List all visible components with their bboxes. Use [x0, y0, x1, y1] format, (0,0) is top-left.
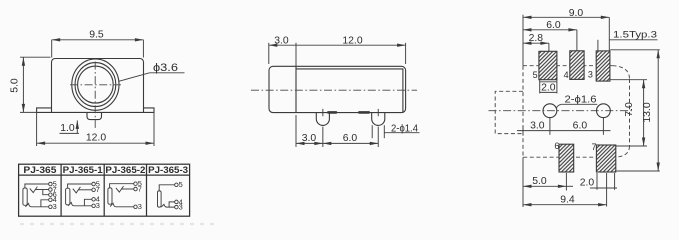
pad 7	[591, 142, 615, 172]
svg-text:2-ϕ1.6: 2-ϕ1.6	[565, 94, 597, 105]
svg-text:2.0: 2.0	[580, 177, 595, 188]
cell PJ-365-1: terminal numbers	[96, 179, 100, 210]
dimension 13.0	[610, 50, 660, 171]
svg-text:2.8: 2.8	[529, 33, 544, 44]
body side continuation left	[51, 108, 53, 113]
jack bushing inner rim	[75, 63, 116, 107]
connector body with mounting flanges (front)	[37, 59, 154, 113]
svg-text:2.0: 2.0	[541, 82, 556, 93]
svg-text:PJ-365-1: PJ-365-1	[63, 164, 103, 175]
leg 1 centerline	[322, 109, 324, 116]
leg 2 centerline	[377, 109, 379, 116]
cell PJ-365: terminal numbers	[53, 179, 57, 211]
centerline horizontal (footprint)	[489, 110, 633, 112]
dimension 1.5 Typ.3 pad width	[598, 29, 658, 50]
pad 5	[533, 51, 557, 80]
svg-text:PJ-365-3: PJ-365-3	[148, 164, 188, 175]
dimension 12.0 bottom width	[37, 112, 154, 146]
svg-text:5: 5	[179, 180, 183, 189]
cell PJ-365-1: terminals	[92, 182, 96, 207]
cell PJ-365: terminals	[49, 182, 53, 208]
body side continuation right	[143, 108, 145, 113]
svg-text:7: 7	[96, 185, 100, 194]
svg-text:2-ϕ1.4: 2-ϕ1.4	[391, 123, 418, 134]
svg-text:7.0: 7.0	[624, 102, 635, 117]
svg-text:3: 3	[96, 201, 100, 210]
jack bushing outer circle	[72, 59, 119, 110]
dimension 2-dia1.4 legs	[372, 123, 419, 138]
dimension 3.0 / 6.0 bottom	[296, 115, 378, 147]
barrel divider line	[295, 66, 297, 112]
jack hole circle (dia 3.6)	[78, 66, 114, 103]
dimension 2.8	[523, 33, 549, 51]
solder leg 2	[372, 113, 385, 126]
scan artifact streak below table	[20, 223, 214, 225]
svg-text:6.0: 6.0	[546, 20, 561, 31]
bottom locating tab	[87, 112, 102, 119]
cell PJ-365: wire to terminal 5	[25, 184, 49, 188]
cell PJ-365-3: stub terminal 4	[169, 202, 175, 207]
mounting slot bar left	[327, 111, 337, 114]
cell PJ-365: bracket 7-6	[43, 190, 49, 195]
table column dividers	[60, 164, 62, 216]
svg-text:6.0: 6.0	[573, 121, 588, 132]
solder leg 1	[316, 113, 329, 126]
svg-text:1.5Typ.3: 1.5Typ.3	[613, 29, 657, 39]
cell PJ-365: switch contact to 7	[30, 187, 38, 193]
cell PJ-365-2: switch contact to 7	[116, 186, 124, 192]
svg-text:4: 4	[564, 70, 569, 80]
label 2-dia1.6 with leader	[556, 94, 597, 108]
dimension 6.0	[523, 20, 577, 51]
svg-text:PJ-365-2: PJ-365-2	[105, 164, 145, 175]
svg-text:9.5: 9.5	[89, 30, 104, 41]
pad 3	[588, 51, 610, 81]
leader and label dia 3.6	[119, 62, 185, 82]
dimension 3.0 / 12.0 top	[269, 35, 406, 66]
svg-text:3: 3	[588, 69, 593, 79]
cell PJ-365-1: jack sleeve	[66, 188, 70, 205]
cell PJ-365-1: stub terminal 4	[84, 199, 92, 206]
svg-text:6: 6	[554, 141, 559, 151]
dimension 5.0 pad6	[523, 157, 573, 207]
cell PJ-365-1: wire to terminal 5	[68, 184, 92, 188]
svg-text:3: 3	[138, 202, 142, 211]
mounting hole left (dia 1.6)	[543, 104, 557, 118]
dimension 7.0	[610, 80, 647, 146]
pad 6	[554, 141, 573, 172]
shared left extension line	[522, 15, 524, 66]
cell PJ-365-3: terminals	[175, 183, 179, 209]
cell PJ-365: jack sleeve	[23, 188, 27, 205]
cell PJ-365-2: jack sleeve	[108, 188, 112, 204]
svg-text:9.4: 9.4	[560, 195, 575, 206]
dimension 9.4 bottom	[523, 173, 607, 207]
mounting slot bar right	[358, 111, 370, 114]
cell PJ-365-3: wire to terminal 5	[159, 185, 175, 191]
cell PJ-365-1: lower switch wire to 3	[68, 203, 92, 206]
dimension 9.5 top width	[52, 30, 144, 58]
svg-text:9.0: 9.0	[569, 8, 584, 19]
cell PJ-365-2: wire to terminal 5	[110, 184, 134, 188]
svg-text:ϕ3.6: ϕ3.6	[153, 62, 178, 74]
cell PJ-365-2: lower switch wire to 3	[110, 203, 134, 207]
pad 4	[564, 51, 585, 80]
dimension 2.0 pad5 width	[540, 80, 557, 94]
cell PJ-365-3: terminal numbers	[179, 180, 183, 211]
svg-text:12.0: 12.0	[86, 132, 106, 143]
svg-text:3.0: 3.0	[530, 121, 545, 132]
dimension 5.0 left height	[10, 57, 51, 112]
svg-text:7: 7	[591, 142, 596, 152]
centerline (side)	[251, 89, 417, 91]
table outer border	[19, 164, 190, 216]
svg-text:PJ-365: PJ-365	[23, 164, 56, 175]
body cover seam double line	[296, 69, 403, 113]
cell PJ-365: stub terminal 4	[41, 200, 49, 207]
cell PJ-365-3: jack sleeve	[158, 191, 162, 207]
dimension 9.0	[523, 8, 609, 51]
svg-text:7: 7	[138, 184, 142, 193]
svg-text:3: 3	[53, 202, 57, 211]
cell PJ-365-2: terminal numbers	[138, 179, 142, 211]
cell PJ-365-3: lower switch wire to 3	[161, 204, 175, 207]
svg-text:1.0: 1.0	[60, 123, 75, 134]
svg-text:6.0: 6.0	[343, 133, 358, 144]
mounting hole right (dia 1.6)	[597, 104, 611, 118]
svg-text:5: 5	[533, 70, 538, 80]
centerline vertical (front)	[94, 62, 96, 131]
dimension 2.0 pad7 width	[580, 173, 617, 190]
svg-text:5.0: 5.0	[532, 176, 547, 187]
centerline horizontal (front)	[70, 84, 121, 86]
svg-text:13.0: 13.0	[642, 102, 653, 122]
svg-text:3.0: 3.0	[302, 133, 317, 144]
connector body (side)	[269, 66, 406, 112]
table header separator	[19, 174, 190, 176]
svg-text:5.0: 5.0	[10, 78, 21, 93]
svg-text:12.0: 12.0	[342, 35, 362, 46]
dimension 3.0 / 6.0 holes	[517, 118, 611, 135]
svg-text:3: 3	[179, 203, 183, 212]
body dashed outline (footprint)	[523, 66, 630, 158]
dimension 1.0 tab height	[60, 120, 80, 134]
cell PJ-365-1: switch contact to 7	[73, 187, 81, 193]
svg-text:3.0: 3.0	[274, 35, 289, 46]
cell PJ-365-2: terminals	[134, 182, 138, 209]
barrel dashed outline (footprint)	[495, 91, 523, 133]
cell PJ-365: lower switch wire to 3	[25, 204, 48, 207]
